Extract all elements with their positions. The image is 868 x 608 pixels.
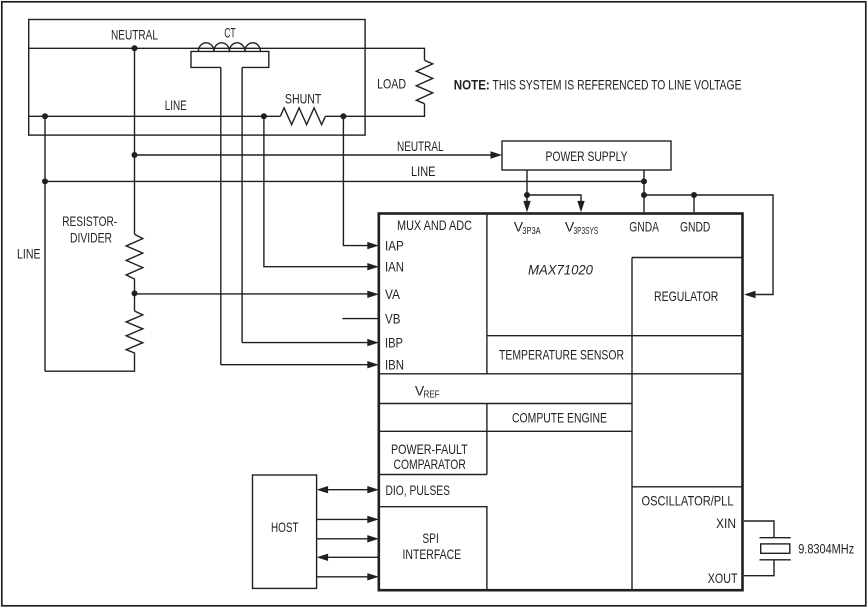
note: system referenced to line voltage: [454, 77, 742, 93]
pin V3P3A: [514, 219, 541, 237]
svg-text:VB: VB: [385, 310, 401, 326]
pin DIO, PULSES: [317, 482, 450, 498]
block POWER-FAULT COMPARATOR: [379, 441, 487, 475]
wire GNDA/GNDD from power supply: [644, 170, 773, 298]
wire NEUTRAL (top): [29, 27, 425, 61]
block OSCILLATOR/PLL: [632, 487, 743, 509]
wire SPI host-to-IC 2: [317, 535, 379, 542]
junction line terminus: [641, 178, 647, 184]
junction divider mid: [132, 290, 138, 296]
svg-text:REF: REF: [424, 389, 440, 401]
pin IBN: [221, 357, 404, 373]
block REGULATOR: [632, 258, 743, 591]
svg-text:NEUTRAL: NEUTRAL: [397, 138, 444, 154]
svg-text:REGULATOR: REGULATOR: [654, 288, 718, 304]
wire SPI host-to-IC 4: [317, 573, 379, 580]
svg-text:XOUT: XOUT: [708, 570, 738, 586]
svg-text:3P3SYS: 3P3SYS: [574, 225, 599, 237]
wire LINE (top): [29, 97, 425, 116]
svg-text:RESISTOR-: RESISTOR-: [62, 213, 117, 229]
block COMPUTE ENGINE: [379, 404, 632, 475]
pin IAN: [264, 116, 404, 274]
svg-text:3P3A: 3P3A: [522, 225, 540, 237]
junction neutral/divider: [132, 45, 138, 51]
svg-text:GNDA: GNDA: [629, 219, 659, 235]
svg-text:NOTE:: NOTE:: [454, 77, 490, 93]
svg-text:NEUTRAL: NEUTRAL: [111, 27, 158, 43]
svg-text:POWER SUPPLY: POWER SUPPLY: [546, 148, 628, 164]
pin VB: [342, 310, 400, 326]
pin IAP: [343, 116, 403, 253]
svg-text:MUX AND ADC: MUX AND ADC: [397, 217, 472, 233]
junction gndd: [691, 192, 697, 198]
pin XIN: [716, 515, 774, 538]
wire SPI IC-to-host 3: [317, 554, 379, 561]
svg-text:DIVIDER: DIVIDER: [70, 230, 112, 246]
resistor LOAD: [377, 60, 433, 103]
IC U1 MAX71020 outline: [379, 214, 743, 591]
block TEMPERATURE SENSOR: [487, 336, 743, 363]
svg-text:IAP: IAP: [385, 237, 404, 253]
svg-text:VA: VA: [385, 286, 401, 302]
junction v3p3a: [524, 192, 530, 198]
resistor R2 (divider bottom): [45, 311, 143, 371]
wire NEUTRAL to power supply: [135, 48, 503, 234]
svg-text:INTERFACE: INTERFACE: [403, 546, 462, 562]
svg-text:IAN: IAN: [385, 259, 404, 275]
svg-text:THIS SYSTEM IS REFERENCED TO L: THIS SYSTEM IS REFERENCED TO LINE VOLTAG…: [493, 77, 742, 93]
junction neutral tap: [132, 152, 138, 158]
svg-text:IBN: IBN: [385, 357, 404, 373]
svg-text:HOST: HOST: [271, 519, 299, 535]
resistor R1 (divider top): [126, 234, 143, 311]
svg-text:XIN: XIN: [716, 515, 736, 531]
svg-text:SHUNT: SHUNT: [285, 90, 322, 106]
svg-text:LINE: LINE: [411, 163, 436, 179]
junction gnda: [641, 192, 647, 198]
block VREF row: [379, 374, 743, 404]
svg-text:CT: CT: [224, 24, 236, 40]
block POWER SUPPLY: [502, 141, 671, 170]
wire LINE to power supply: [45, 116, 644, 371]
svg-text:IBP: IBP: [385, 334, 403, 350]
block MUX AND ADC: [397, 214, 487, 374]
wire SPI host-to-IC 1: [317, 516, 379, 523]
mains wiring box: [29, 20, 365, 136]
svg-text:LINE: LINE: [165, 97, 187, 113]
pin XOUT: [708, 560, 774, 586]
junction line/divider tap: [42, 113, 48, 119]
svg-text:MAX71020: MAX71020: [528, 262, 593, 278]
junction line tap: [42, 178, 48, 184]
pin VA: [135, 286, 401, 302]
junction shunt left: [261, 113, 267, 119]
pin V3P3SYS: [565, 219, 598, 237]
block SPI INTERFACE: [379, 507, 487, 591]
junction shunt right: [340, 113, 346, 119]
svg-text:TEMPERATURE SENSOR: TEMPERATURE SENSOR: [499, 347, 624, 363]
crystal Y1 9.8304MHz: [760, 538, 855, 560]
svg-text:9.8304MHz: 9.8304MHz: [798, 541, 854, 557]
transformer CT: [191, 24, 269, 364]
svg-text:OSCILLATOR/PLL: OSCILLATOR/PLL: [642, 493, 734, 509]
pin IBP: [242, 334, 403, 350]
svg-text:LINE: LINE: [17, 245, 41, 261]
svg-text:GNDD: GNDD: [680, 219, 710, 235]
svg-text:POWER-FAULT: POWER-FAULT: [391, 441, 468, 457]
svg-text:DIO, PULSES: DIO, PULSES: [386, 482, 451, 498]
block HOST: [253, 475, 317, 588]
svg-text:COMPARATOR: COMPARATOR: [394, 456, 466, 472]
wire V3P3A from power supply: [523, 170, 584, 212]
resistor SHUNT: [280, 90, 325, 124]
label RESISTOR-DIVIDER: [62, 213, 117, 246]
svg-text:SPI: SPI: [422, 530, 438, 546]
svg-text:LOAD: LOAD: [377, 76, 406, 92]
svg-text:COMPUTE ENGINE: COMPUTE ENGINE: [512, 409, 607, 425]
